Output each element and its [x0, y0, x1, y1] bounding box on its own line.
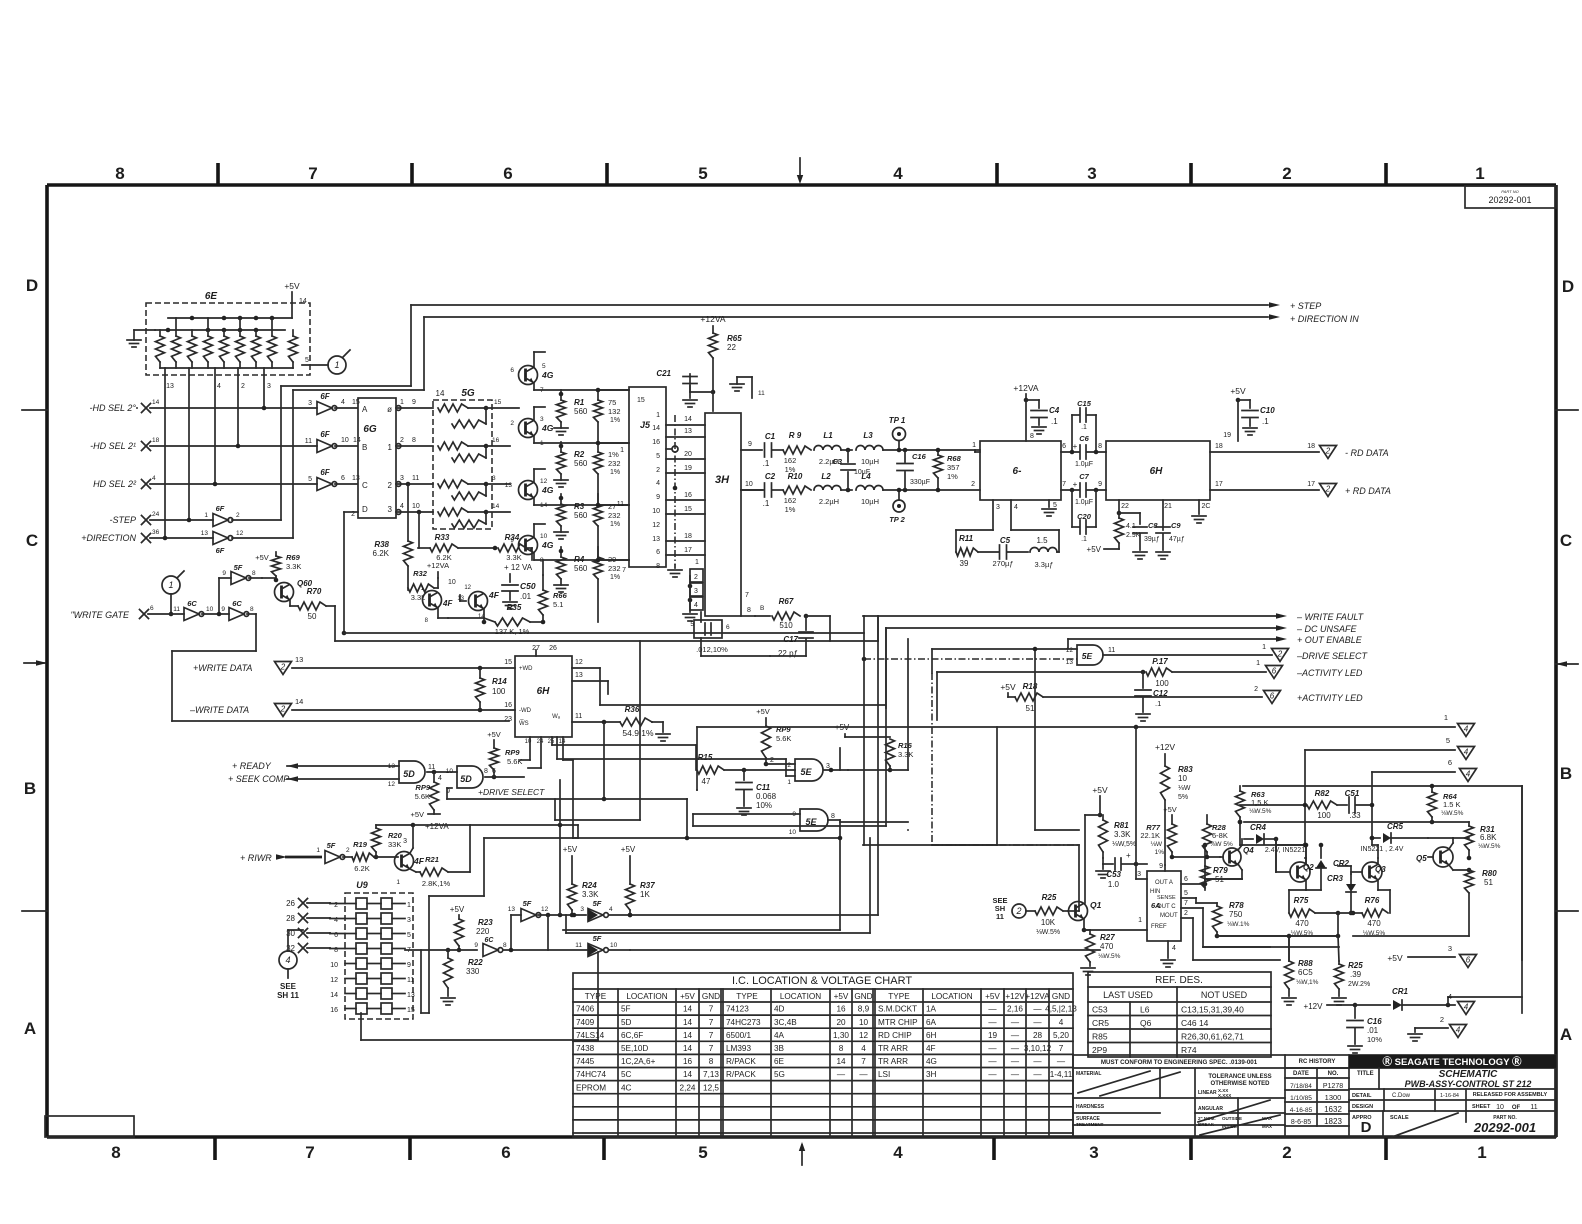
svg-text:-STEP: -STEP — [109, 515, 136, 525]
svg-text:CR1: CR1 — [1392, 987, 1409, 996]
wire -step — [150, 519, 281, 521]
svg-text:5: 5 — [305, 357, 309, 364]
capacitor C16 .01 — [1347, 1005, 1382, 1053]
svg-text:100: 100 — [1155, 679, 1169, 688]
svg-text:R82: R82 — [1315, 789, 1330, 798]
svg-text:54.9,1%: 54.9,1% — [622, 728, 654, 738]
svg-text:12,5: 12,5 — [703, 1083, 719, 1092]
svg-text:Q5: Q5 — [1416, 854, 1427, 863]
svg-text:1632: 1632 — [1324, 1105, 1342, 1114]
svg-text:2C: 2C — [1202, 503, 1211, 510]
svg-text:39: 39 — [960, 559, 969, 568]
wire bus e — [877, 616, 879, 915]
svg-text:C21: C21 — [656, 369, 671, 378]
inverter 6F d step — [204, 504, 240, 527]
svg-text:16: 16 — [652, 439, 660, 446]
svg-text:6E: 6E — [205, 291, 218, 302]
svg-text:2.4V, IN5221: 2.4V, IN5221 — [1265, 847, 1305, 854]
svg-text:7,13: 7,13 — [703, 1070, 719, 1079]
svg-text:Wₐ: Wₐ — [552, 714, 561, 720]
svg-text:C8: C8 — [1148, 521, 1158, 530]
svg-text:+5V: +5V — [450, 905, 465, 914]
svg-text:1: 1 — [316, 847, 320, 854]
svg-text:14: 14 — [683, 1070, 693, 1079]
svg-text:2: 2 — [388, 481, 393, 490]
svg-text:560: 560 — [574, 407, 588, 416]
IC chart title — [732, 975, 912, 987]
svg-text:3B: 3B — [774, 1044, 785, 1053]
+5V r77 — [1163, 805, 1177, 824]
svg-text:14: 14 — [683, 1005, 693, 1014]
+12V CR1 row — [1304, 1002, 1390, 1011]
svg-text:6C5: 6C5 — [1298, 968, 1313, 977]
svg-text:6: 6 — [1270, 692, 1275, 701]
svg-text:MAX: MAX — [1262, 1124, 1272, 1129]
svg-text:4: 4 — [1172, 945, 1176, 952]
svg-text:15: 15 — [494, 399, 502, 406]
svg-text:R67: R67 — [779, 597, 794, 606]
svg-text:–ACTIVITY LED: –ACTIVITY LED — [1296, 668, 1363, 678]
top rail motor rect — [1243, 786, 1522, 1013]
svg-text:3H: 3H — [715, 474, 730, 486]
svg-text:OUT A: OUT A — [1155, 880, 1173, 886]
svg-text:—: — — [988, 1005, 997, 1014]
svg-text:1/10/85: 1/10/85 — [1290, 1095, 1312, 1102]
wire hd sel 22 — [150, 483, 317, 485]
svg-text:LM393: LM393 — [726, 1044, 751, 1053]
left edge arrow — [24, 660, 47, 666]
svg-text:7409: 7409 — [576, 1018, 595, 1027]
svg-text:.1: .1 — [1155, 699, 1161, 708]
svg-text:2: 2 — [280, 663, 286, 672]
6G pin labels — [351, 405, 392, 518]
svg-text:6: 6 — [1466, 956, 1471, 965]
svg-text:CR4: CR4 — [1250, 823, 1267, 832]
svg-text:R4: R4 — [574, 555, 585, 564]
svg-text:⅛W: ⅛W — [1178, 785, 1191, 792]
svg-text:5F: 5F — [523, 899, 532, 908]
6H read bottom pins — [1117, 500, 1211, 530]
svg-text:330µF: 330µF — [910, 479, 930, 486]
svg-text:14: 14 — [652, 425, 660, 432]
svg-text:R34: R34 — [505, 533, 520, 542]
svg-text:-WD: -WD — [519, 708, 532, 714]
svg-text:5,20: 5,20 — [1053, 1031, 1069, 1040]
svg-text:C1: C1 — [765, 432, 776, 441]
svg-text:8: 8 — [425, 618, 429, 624]
svg-text:3,10,12: 3,10,12 — [1024, 1044, 1052, 1053]
svg-text:2: 2 — [1184, 910, 1188, 917]
svg-text:10: 10 — [859, 1018, 869, 1027]
svg-text:330: 330 — [466, 967, 480, 976]
svg-text:6: 6 — [501, 1143, 510, 1162]
svg-text:3: 3 — [400, 475, 404, 482]
svg-text:11: 11 — [407, 977, 414, 984]
svg-text:12: 12 — [464, 585, 471, 591]
svg-text:4G: 4G — [541, 423, 554, 433]
+ready label — [232, 761, 399, 771]
svg-text:13: 13 — [1066, 659, 1074, 666]
inverter 5F riwr — [316, 841, 352, 864]
svg-text:J5: J5 — [640, 420, 651, 430]
svg-text:12: 12 — [388, 781, 396, 788]
svg-text:17: 17 — [684, 547, 692, 554]
svg-text:10: 10 — [789, 829, 797, 836]
svg-text:9: 9 — [474, 942, 478, 949]
svg-text:13: 13 — [166, 383, 174, 390]
resistor R70 50 — [298, 587, 878, 641]
svg-text:+5V: +5V — [410, 810, 424, 819]
svg-text:R21: R21 — [425, 855, 439, 864]
svg-text:232: 232 — [608, 459, 621, 468]
zone letters right — [1560, 277, 1574, 1044]
svg-text:6C: 6C — [232, 599, 242, 608]
5G resistors — [438, 404, 488, 528]
svg-text:12: 12 — [652, 522, 660, 529]
svg-text:2" NOM.: 2" NOM. — [1198, 1116, 1216, 1121]
svg-text:13: 13 — [505, 482, 513, 489]
svg-text:14: 14 — [683, 1031, 693, 1040]
svg-text:4: 4 — [1014, 504, 1018, 511]
svg-text:3.3K: 3.3K — [286, 562, 301, 571]
wire 6A mout — [1193, 918, 1280, 960]
-RD DATA out — [1210, 443, 1389, 459]
svg-text:5: 5 — [656, 453, 660, 460]
resistor R88 — [1282, 934, 1319, 1005]
svg-text:1.0µF: 1.0µF — [1075, 461, 1093, 468]
resistor R23 220 — [450, 905, 493, 952]
svg-text:2: 2 — [1325, 447, 1331, 456]
svg-text:GND: GND — [1052, 992, 1070, 1001]
inductor L4 10uH — [846, 472, 980, 506]
svg-text:5: 5 — [308, 476, 312, 483]
resistor R67 510 — [755, 597, 808, 630]
svg-text:5.6K: 5.6K — [776, 734, 791, 743]
svg-text:"WRITE GATE: "WRITE GATE — [70, 610, 130, 620]
svg-text:FREF: FREF — [1151, 924, 1167, 930]
svg-text:8: 8 — [656, 563, 660, 570]
IC location voltage chart grid — [573, 973, 1073, 1137]
svg-text:C7: C7 — [1079, 472, 1089, 481]
5E b wiring — [693, 814, 800, 826]
svg-text:5E,10D: 5E,10D — [621, 1044, 648, 1053]
svg-text:7445: 7445 — [576, 1057, 595, 1066]
svg-text:6: 6 — [1062, 443, 1066, 450]
svg-text:1: 1 — [396, 879, 400, 886]
svg-text:+5V: +5V — [1000, 682, 1016, 692]
svg-text:270µƒ: 270µƒ — [992, 559, 1013, 568]
svg-text:3: 3 — [1087, 164, 1096, 183]
svg-text:2: 2 — [1254, 686, 1258, 693]
svg-text:D: D — [1361, 1119, 1372, 1136]
svg-text:C: C — [1560, 531, 1572, 550]
resistor R18 51 — [1000, 682, 1262, 713]
wire +out enable — [1068, 636, 1287, 648]
svg-text:18: 18 — [684, 533, 692, 540]
resistor R82 100 — [1240, 789, 1347, 820]
J5 pin numbers — [617, 412, 671, 574]
svg-text:—: — — [837, 1070, 846, 1079]
svg-text:10: 10 — [446, 768, 454, 775]
svg-text:2: 2 — [1325, 485, 1331, 494]
6E +5V — [284, 281, 307, 318]
svg-text:TR ARR: TR ARR — [878, 1057, 908, 1066]
resistor R69 3.3K — [255, 552, 301, 582]
svg-text:19: 19 — [684, 465, 692, 472]
resistor R31 6.8K — [1453, 822, 1501, 860]
svg-text:R/PACK: R/PACK — [726, 1057, 756, 1066]
svg-text:4: 4 — [893, 164, 903, 183]
svg-text:Q1: Q1 — [1090, 900, 1102, 910]
resistor pack 6E dashed box — [146, 291, 310, 375]
svg-text:PWB-ASSY-CONTROL ST 212: PWB-ASSY-CONTROL ST 212 — [1405, 1079, 1532, 1089]
svg-text:14: 14 — [684, 416, 692, 423]
label +step — [1290, 301, 1321, 311]
svg-text:11: 11 — [305, 438, 312, 445]
svg-text:1%: 1% — [785, 505, 796, 514]
svg-text:4: 4 — [1464, 748, 1469, 757]
capacitor C20 loop — [1072, 490, 1096, 543]
svg-text:.1: .1 — [1081, 424, 1087, 431]
svg-text:+WRITE DATA: +WRITE DATA — [193, 663, 252, 673]
title block outer — [1073, 1055, 1556, 1137]
inverter 6F a — [308, 392, 360, 415]
svg-text:NOT USED: NOT USED — [1201, 990, 1248, 1000]
svg-text:17: 17 — [1215, 481, 1223, 488]
svg-text:5.6K: 5.6K — [415, 792, 430, 801]
svg-text:20292-001: 20292-001 — [1488, 195, 1531, 205]
svg-text:Q6: Q6 — [1140, 1018, 1152, 1028]
svg-text:4A: 4A — [774, 1031, 785, 1040]
svg-text:7: 7 — [709, 1031, 714, 1040]
svg-text:7/18/84: 7/18/84 — [1290, 1083, 1312, 1090]
svg-text:5F: 5F — [234, 563, 243, 572]
part number main — [1473, 1115, 1536, 1135]
svg-text:+ READY: + READY — [232, 761, 272, 771]
wire q2 q3 collectors — [1242, 836, 1378, 864]
svg-text:—: — — [988, 1044, 997, 1053]
wire -activity led — [937, 670, 1145, 720]
4G wires — [534, 352, 629, 560]
svg-text:6: 6 — [510, 367, 514, 374]
svg-text:20: 20 — [836, 1018, 846, 1027]
capacitor C6 1.0uF — [1061, 434, 1106, 468]
wire mid2 — [651, 721, 653, 723]
IC 6- box — [980, 441, 1061, 500]
svg-text:⅛W.5%: ⅛W.5% — [1098, 953, 1121, 960]
svg-text:5%: 5% — [1178, 794, 1188, 801]
rc history box — [1285, 1059, 1349, 1126]
svg-text:R75: R75 — [1294, 896, 1309, 905]
svg-text:Ⓡ SEAGATE TECHNOLOGY Ⓡ: Ⓡ SEAGATE TECHNOLOGY Ⓡ — [1383, 1056, 1522, 1068]
resistor R81 3.3K — [1099, 815, 1137, 858]
svg-text:R26,30,61,62,71: R26,30,61,62,71 — [1181, 1032, 1244, 1042]
svg-text:6.2K: 6.2K — [354, 864, 369, 873]
svg-text:5D: 5D — [460, 774, 472, 784]
svg-text:1823: 1823 — [1324, 1117, 1342, 1126]
svg-text:1%: 1% — [610, 574, 620, 581]
svg-text:4-16-85: 4-16-85 — [1290, 1107, 1313, 1114]
IC 6G box — [358, 398, 396, 518]
wire x560 drop — [558, 823, 563, 915]
zone ticks left edge — [22, 410, 47, 911]
svg-text:8: 8 — [1098, 443, 1102, 450]
-drive select out — [1262, 644, 1368, 662]
svg-text:+5V: +5V — [621, 845, 636, 854]
svg-text:10: 10 — [540, 533, 548, 540]
svg-text:4: 4 — [1464, 725, 1469, 734]
svg-text:—: — — [1033, 1018, 1042, 1027]
svg-text:47µƒ: 47µƒ — [1169, 536, 1185, 543]
svg-text:2: 2 — [971, 481, 975, 488]
svg-text:7: 7 — [745, 592, 749, 599]
svg-text:33K: 33K — [388, 840, 401, 849]
svg-text:16: 16 — [683, 1057, 693, 1066]
svg-text:+12VA: +12VA — [427, 561, 449, 570]
svg-text:162: 162 — [784, 456, 797, 465]
6H read top pin 19 — [1223, 386, 1275, 441]
write gate label — [70, 605, 184, 620]
svg-text:TOLERANCE UNLESS: TOLERANCE UNLESS — [1208, 1074, 1271, 1080]
wire vertical 1136 — [1136, 727, 1147, 879]
svg-text:8: 8 — [412, 437, 416, 444]
svg-text:6: 6 — [656, 549, 660, 556]
resistor R19 6.2K — [352, 840, 398, 873]
svg-text:+5V: +5V — [756, 707, 770, 716]
svg-text:10K: 10K — [1041, 918, 1056, 927]
svg-text:+5V: +5V — [487, 730, 501, 739]
6E bus wires — [155, 316, 292, 333]
svg-text:C10: C10 — [1260, 406, 1275, 415]
svg-text:24: 24 — [152, 511, 160, 518]
svg-text:SENSE: SENSE — [1157, 895, 1176, 901]
+12VA at 6- — [1013, 383, 1059, 441]
wire kb — [1238, 820, 1243, 845]
svg-text:R79: R79 — [1213, 866, 1228, 875]
6H read right pins — [1215, 443, 1223, 488]
diode CR5 — [1361, 822, 1428, 853]
svg-text:B: B — [24, 779, 36, 798]
svg-text:8: 8 — [484, 768, 488, 775]
wire +step bus — [281, 302, 1280, 520]
svg-text:6C: 6C — [187, 599, 197, 608]
+write data — [193, 655, 515, 675]
svg-text:IN5221 , 2.4V: IN5221 , 2.4V — [1361, 846, 1404, 853]
IC 3H box — [705, 413, 741, 616]
gate 5E a — [787, 759, 848, 786]
svg-text:1%: 1% — [947, 472, 958, 481]
svg-text:TYPE: TYPE — [736, 992, 758, 1001]
svg-text:1: 1 — [407, 902, 411, 909]
svg-text:—: — — [988, 1070, 997, 1079]
capacitor C11 0.068 — [736, 770, 777, 815]
svg-text:1%: 1% — [610, 417, 620, 424]
svg-text:19: 19 — [988, 1031, 998, 1040]
svg-text:51: 51 — [1484, 878, 1493, 887]
transistor Q60 — [275, 579, 313, 606]
svg-text:3: 3 — [407, 917, 411, 924]
svg-text:TR ARR: TR ARR — [878, 1044, 908, 1053]
resistor R65 22 — [709, 333, 743, 394]
gate 5E c — [1066, 645, 1272, 666]
svg-text:50: 50 — [308, 612, 317, 621]
svg-text:16: 16 — [504, 702, 512, 709]
svg-text:470: 470 — [1100, 942, 1114, 951]
svg-text:5G: 5G — [774, 1070, 785, 1079]
+RD DATA out — [1210, 481, 1391, 497]
svg-text:4F: 4F — [926, 1044, 936, 1053]
svg-text:—: — — [988, 1057, 997, 1066]
capacitor C2 — [741, 472, 783, 508]
see sh 11 connector 4 — [277, 930, 303, 1000]
svg-text:C: C — [26, 531, 38, 550]
inverter 5F wg — [217, 563, 262, 616]
svg-text:C20: C20 — [1077, 512, 1092, 521]
svg-text:D: D — [362, 505, 368, 514]
svg-text:.01: .01 — [1367, 1026, 1379, 1035]
transistor Q2 — [1276, 839, 1314, 890]
svg-text:4: 4 — [656, 480, 660, 487]
diode CR3 — [1327, 866, 1356, 915]
svg-text:1300: 1300 — [1325, 1093, 1342, 1102]
connector 2 bottom — [1408, 1015, 1467, 1041]
svg-text:R38: R38 — [374, 540, 389, 549]
svg-text:CR5: CR5 — [1387, 822, 1404, 831]
svg-text:13: 13 — [508, 906, 516, 913]
svg-text:SCALE: SCALE — [1390, 1115, 1409, 1121]
svg-text:+5V: +5V — [255, 553, 269, 562]
svg-text:P1278: P1278 — [1323, 1083, 1343, 1090]
svg-text:1: 1 — [204, 512, 208, 519]
resistor pack U9 — [330, 880, 415, 1019]
svg-text:R11: R11 — [959, 534, 974, 543]
svg-text:4: 4 — [438, 775, 442, 782]
svg-text:7: 7 — [709, 1044, 714, 1053]
svg-text:R16: R16 — [898, 741, 913, 750]
right edge arrow — [1556, 661, 1578, 667]
svg-text:2: 2 — [770, 757, 774, 764]
svg-text:TYPE: TYPE — [585, 992, 607, 1001]
svg-text:6C: 6C — [485, 937, 495, 944]
resistor R79 51 — [1201, 843, 1229, 888]
svg-text:TITLE: TITLE — [1357, 1071, 1374, 1077]
svg-text:10: 10 — [341, 437, 349, 444]
svg-text:22: 22 — [1121, 503, 1129, 510]
svg-text:5: 5 — [698, 164, 707, 183]
gate 5D b — [446, 766, 524, 795]
svg-text:2W.2%: 2W.2% — [1348, 981, 1370, 988]
svg-text:232: 232 — [608, 564, 621, 573]
svg-text:2: 2 — [346, 847, 350, 854]
transistor Q3 — [1351, 858, 1386, 890]
svg-text:+: + — [1073, 480, 1078, 489]
svg-text:—: — — [1011, 1070, 1020, 1079]
svg-text:.1: .1 — [763, 459, 770, 468]
svg-text:10: 10 — [610, 942, 618, 949]
IC chart rows — [576, 1005, 1077, 1093]
svg-text:5.1: 5.1 — [553, 600, 563, 609]
svg-text:+5V: +5V — [834, 992, 849, 1001]
wire +direction bus — [293, 314, 1280, 538]
svg-text:15: 15 — [684, 506, 692, 513]
label +direction in — [1290, 314, 1359, 324]
svg-text:–DRIVE SELECT: –DRIVE SELECT — [1296, 651, 1369, 661]
svg-text:23: 23 — [504, 716, 512, 723]
-write data — [189, 697, 515, 717]
svg-text:3: 3 — [308, 400, 312, 407]
svg-text:13: 13 — [652, 536, 660, 543]
3H pin boxes — [683, 559, 703, 621]
